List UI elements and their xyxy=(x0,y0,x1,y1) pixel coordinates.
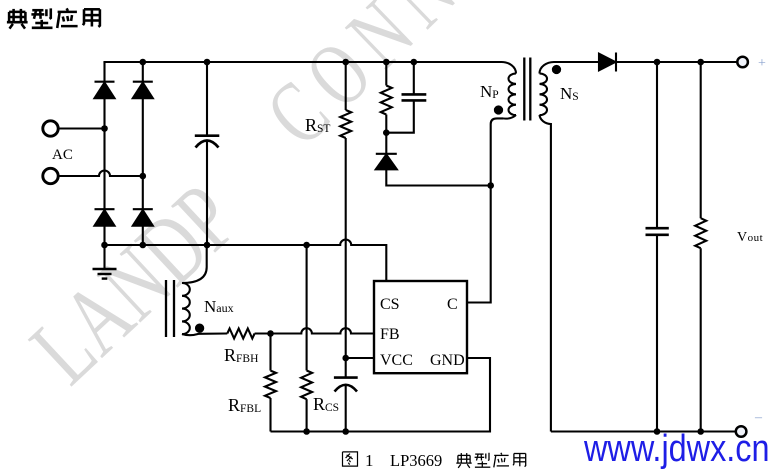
wire output capacitor branch xyxy=(656,62,658,228)
node top rail / bulk cap xyxy=(204,59,211,66)
watermark LANDP CON xyxy=(11,0,481,404)
caption url www.jdwx.cn xyxy=(584,430,770,468)
caption dianxing yingyong xyxy=(456,453,471,468)
resistor RFBL xyxy=(265,371,276,398)
aux core xyxy=(165,280,167,337)
node drain junction xyxy=(487,182,494,189)
node AC lower / right leg xyxy=(140,173,147,180)
IC U1 LP3669 xyxy=(374,281,467,373)
auxiliary winding Naux xyxy=(182,283,190,334)
svg-text:+: + xyxy=(758,56,766,71)
node AC upper / left leg xyxy=(101,125,108,132)
node out- / cap xyxy=(654,428,661,435)
svg-text:CONN: CONN xyxy=(247,0,482,164)
node bottom rail / ground xyxy=(101,242,108,249)
wire secondary to output diode xyxy=(554,61,599,63)
wire RCS branch xyxy=(306,245,308,371)
capacitor bulk (polarized) xyxy=(195,134,220,137)
wire aux winding top xyxy=(182,245,207,284)
wire VCC pin xyxy=(346,357,374,359)
svg-text:FB: FB xyxy=(380,326,400,343)
wire GND pin to primary ground rail xyxy=(271,358,491,432)
svg-text:GND: GND xyxy=(430,352,465,369)
polarity dot NP xyxy=(495,106,502,113)
wire drain: primary bottom to C pin xyxy=(467,118,503,302)
wire AC line upper xyxy=(59,127,105,129)
node gnd rail / RCS xyxy=(303,428,310,435)
svg-text:LP3669: LP3669 xyxy=(390,451,442,470)
wire aux bottom to divider xyxy=(182,334,227,336)
wire bulk capacitor branch xyxy=(206,62,208,135)
svg-text:1: 1 xyxy=(365,451,374,470)
svg-text:LANDP: LANDP xyxy=(11,165,257,404)
wire feedback divider to FB pin (hops over RCS and RST lines) xyxy=(255,328,374,333)
resistor RFBH xyxy=(227,329,254,339)
diode output rectifier xyxy=(599,54,615,71)
node bottom rail / bulk cap / aux xyxy=(204,242,211,249)
node FB divider xyxy=(267,330,274,337)
wire output positive rail xyxy=(616,61,737,63)
wire output load branch xyxy=(700,62,702,218)
wire bridge bottom / current-sense rail to CS xyxy=(105,240,387,282)
diode clamp xyxy=(376,153,397,155)
svg-text:NS: NS xyxy=(560,84,579,103)
svg-text:RFBH: RFBH xyxy=(224,345,258,365)
wire RFBL branch xyxy=(269,334,271,371)
secondary winding NS xyxy=(540,62,555,74)
wire RST / VCC charge line xyxy=(345,62,347,110)
primary winding NP xyxy=(501,62,516,74)
wire snubber resistor branch xyxy=(385,62,387,86)
caption figure 1 xyxy=(343,452,358,466)
node snubber junction xyxy=(383,129,390,136)
capacitor VCC xyxy=(334,376,358,379)
AC terminal upper xyxy=(43,121,58,136)
svg-text:–: – xyxy=(754,410,763,425)
node out- / load xyxy=(697,428,704,435)
node sense rail / RCS xyxy=(303,242,310,249)
wire output negative rail xyxy=(551,430,736,432)
polarity dot NS xyxy=(553,66,560,73)
wire clamp diode anode to drain node xyxy=(386,170,490,186)
node top rail / snubber R xyxy=(383,59,390,66)
svg-text:Naux: Naux xyxy=(204,297,234,316)
svg-text:AC: AC xyxy=(52,147,73,163)
node bottom rail / right leg xyxy=(140,242,147,249)
node out+ / load xyxy=(697,59,704,66)
node gnd rail / VCC cap xyxy=(342,428,349,435)
wire top rail (primary DC bus) xyxy=(105,62,502,63)
node top rail / right leg xyxy=(140,59,147,66)
resistor RST xyxy=(340,110,351,138)
polarity dot Naux xyxy=(196,325,203,332)
capacitor output xyxy=(646,227,669,230)
wire snubber capacitor branch xyxy=(413,62,415,94)
resistor snubber xyxy=(381,86,392,115)
capacitor snubber xyxy=(402,93,427,96)
node VCC xyxy=(342,355,349,362)
svg-text:RCS: RCS xyxy=(313,394,339,414)
svg-text:RFBL: RFBL xyxy=(228,395,261,415)
diode D2 bridge top-right xyxy=(133,81,153,83)
svg-text:C: C xyxy=(447,296,458,313)
wire ground stem xyxy=(103,245,105,269)
diode D1 bridge top-left xyxy=(95,81,115,83)
node top rail / RST xyxy=(342,59,349,66)
terminal - xyxy=(736,426,747,437)
svg-text:NP: NP xyxy=(480,82,499,101)
title dianxing yingyong xyxy=(7,9,28,29)
wire left bridge leg xyxy=(103,62,105,245)
svg-text:CS: CS xyxy=(380,296,400,313)
terminal + xyxy=(737,57,748,68)
node out+ / cap xyxy=(654,59,661,66)
wire secondary return xyxy=(550,123,552,432)
wire VCC capacitor branch xyxy=(345,358,347,377)
svg-text:VCC: VCC xyxy=(380,352,413,369)
ground symbol xyxy=(93,268,117,270)
resistor RCS xyxy=(301,371,312,400)
node top rail / snubber C xyxy=(411,59,418,66)
resistor load Vout xyxy=(695,218,706,248)
diode D3 bridge bottom-left xyxy=(95,208,115,210)
svg-text:Vout: Vout xyxy=(737,230,763,245)
wire right bridge leg xyxy=(142,62,144,245)
AC terminal lower xyxy=(43,168,58,183)
wire AC line lower (hops over left leg) xyxy=(59,171,143,177)
transformer core xyxy=(523,58,525,121)
diode D4 bridge bottom-right xyxy=(133,208,153,210)
